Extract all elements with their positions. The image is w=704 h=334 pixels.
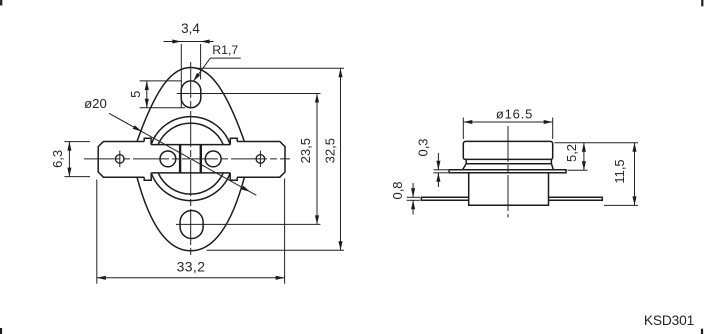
svg-text:0,3: 0,3 — [416, 138, 431, 156]
horizontal centerline left view — [84, 158, 290, 160]
border corner tick top-right — [701, 0, 703, 6]
svg-text:0,8: 0,8 — [390, 181, 405, 199]
rivet right — [205, 151, 221, 167]
side view left terminal — [421, 197, 468, 200]
dimension diameter 16,5 — [463, 107, 552, 139]
border corner tick bottom-right — [701, 329, 703, 334]
band top edge — [151, 144, 230, 146]
dimension 33,2 — [97, 179, 285, 284]
rivet left — [160, 151, 176, 167]
right terminal hole — [256, 151, 265, 167]
bridge vertical right — [200, 145, 202, 173]
dimension 5,2 — [555, 143, 639, 170]
side view flange plate — [449, 170, 566, 173]
ear bottom-right — [230, 173, 237, 180]
outer cap circle (left view) — [151, 117, 230, 201]
svg-text:11,5: 11,5 — [612, 159, 627, 183]
dimension 0,3 — [416, 138, 449, 187]
dimension 11,5 — [604, 143, 638, 206]
dimension 32,5 — [198, 68, 345, 250]
left terminal hole — [116, 151, 125, 167]
svg-text:ø20: ø20 — [84, 96, 107, 111]
side view cap groove — [466, 159, 551, 163]
svg-text:6,3: 6,3 — [50, 150, 65, 168]
side view body — [469, 173, 549, 205]
border corner tick bottom-left — [0, 328, 2, 334]
svg-text:KSD301: KSD301 — [644, 313, 694, 328]
dimension diameter 20 — [84, 96, 256, 196]
side view vertical centerline — [507, 126, 509, 218]
svg-text:33,2: 33,2 — [177, 259, 206, 275]
border corner tick top-left — [0, 0, 2, 6]
side view right terminal — [549, 197, 603, 200]
ear top-left — [144, 138, 151, 144]
top mounting slot — [181, 81, 201, 108]
right terminal blade — [237, 142, 285, 178]
svg-text:23,5: 23,5 — [298, 138, 313, 163]
dimension 6,3 — [50, 142, 90, 177]
dimension 23,5 — [176, 94, 320, 225]
side view cap skirt — [463, 164, 554, 170]
svg-text:32,5: 32,5 — [323, 138, 338, 163]
ear top-right — [230, 138, 237, 144]
svg-text:3,4: 3,4 — [181, 21, 200, 36]
dimension 0,8 — [390, 181, 420, 214]
svg-text:5: 5 — [128, 91, 143, 98]
ear bottom-left — [144, 173, 151, 180]
side view cap — [463, 141, 552, 159]
dimension 3,4 — [164, 42, 214, 108]
svg-text:ø16.5: ø16.5 — [496, 107, 533, 122]
band bottom edge — [151, 172, 230, 174]
flange top tent outline — [137, 68, 244, 142]
vertical centerline left view — [190, 62, 192, 258]
left terminal blade — [98, 142, 144, 178]
bridge vertical left — [179, 145, 181, 173]
dimension 5 — [128, 81, 185, 108]
flange bottom V outline — [137, 177, 245, 251]
dimension R1,7 — [192, 43, 241, 82]
svg-text:R1,7: R1,7 — [212, 43, 238, 57]
svg-text:5,2: 5,2 — [564, 144, 579, 162]
bottom mounting hole — [180, 211, 203, 239]
inner cap circle (left view) — [158, 123, 223, 194]
